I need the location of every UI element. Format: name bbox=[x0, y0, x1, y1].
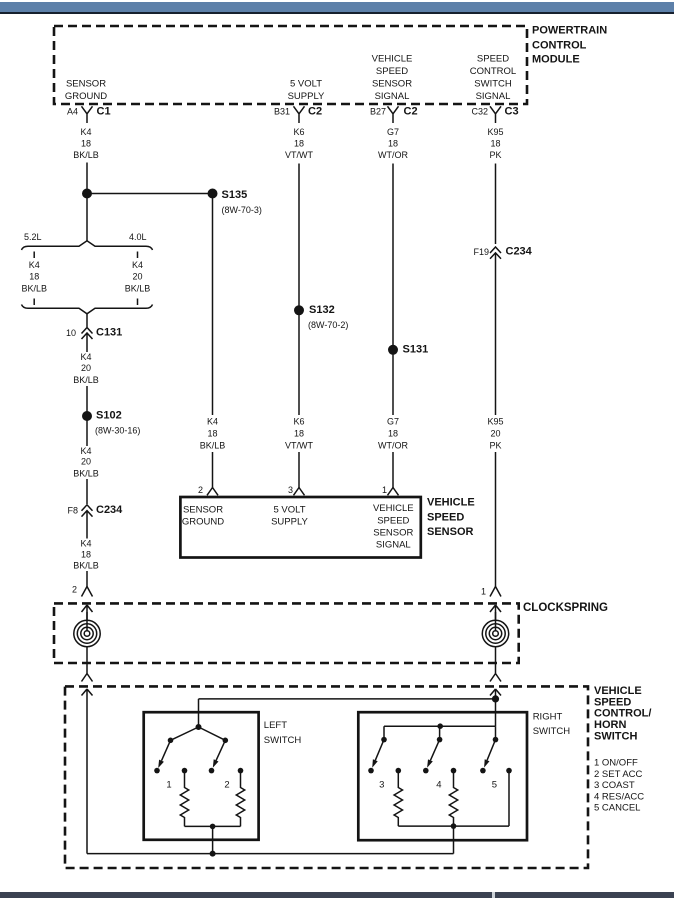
wire col3 C2 down bbox=[392, 164, 394, 351]
bottom return bus bbox=[87, 853, 454, 855]
svg-text:4: 4 bbox=[436, 780, 441, 791]
svg-text:2: 2 bbox=[198, 485, 203, 495]
right switch feed bus bbox=[384, 726, 496, 739]
right switch box bbox=[358, 712, 527, 840]
switch arm 4 bbox=[427, 740, 440, 768]
svg-text:PK: PK bbox=[489, 441, 501, 451]
switch 5 contact terminal bbox=[480, 768, 486, 774]
PCM pin label SPEED CONTROL SWITCH SIGNAL bbox=[470, 54, 516, 102]
svg-text:BK/LB: BK/LB bbox=[73, 150, 99, 160]
PCM pin label VEHICLE SPEED SENSOR SIGNAL bbox=[372, 54, 413, 102]
svg-text:SENSOR: SENSOR bbox=[373, 528, 413, 539]
sensor pin 2 fork bbox=[198, 485, 218, 495]
switch legend list bbox=[594, 758, 644, 814]
svg-text:VT/WT: VT/WT bbox=[285, 441, 313, 451]
wire label K95 18 PK col4 bbox=[487, 127, 503, 160]
svg-text:SUPPLY: SUPPLY bbox=[288, 91, 325, 102]
switch 4 contact terminal bbox=[423, 768, 429, 774]
svg-text:S135: S135 bbox=[222, 189, 248, 201]
svg-text:SIGNAL: SIGNAL bbox=[375, 91, 410, 102]
wire col2 C2 down bbox=[298, 164, 300, 311]
svg-text:20: 20 bbox=[490, 429, 500, 439]
svg-text:CONTROL: CONTROL bbox=[532, 39, 587, 51]
junction bottom bus bbox=[210, 851, 216, 857]
resistor R3 terminal bbox=[396, 768, 402, 774]
svg-text:SENSOR: SENSOR bbox=[427, 526, 474, 538]
svg-text:SIGNAL: SIGNAL bbox=[376, 540, 411, 551]
svg-text:18: 18 bbox=[490, 139, 500, 149]
left switch box bbox=[144, 712, 259, 840]
resistor R2 bbox=[236, 771, 244, 827]
wire col4 to clockspring pin1 bbox=[495, 452, 497, 587]
wire stub left bottom bbox=[33, 299, 35, 306]
junction top bus bbox=[492, 695, 499, 702]
switch 1 contact terminal bbox=[154, 768, 160, 774]
wire left clockspring to switch fork bbox=[82, 663, 93, 682]
sensor box label 5 VOLT SUPPLY bbox=[271, 504, 308, 527]
wire C131 to S102 bbox=[86, 386, 88, 421]
svg-text:18: 18 bbox=[81, 549, 91, 559]
left box bus junction bbox=[210, 824, 216, 830]
svg-text:K4: K4 bbox=[80, 446, 91, 456]
svg-text:VT/WT: VT/WT bbox=[285, 150, 313, 160]
brace bottom bbox=[22, 305, 153, 314]
wire label K4 18 BK/LB above sensor bbox=[200, 417, 226, 451]
wire stub right top bbox=[137, 252, 139, 259]
svg-text:K4: K4 bbox=[29, 260, 40, 270]
sensor pin 1 fork bbox=[382, 485, 399, 495]
svg-text:GROUND: GROUND bbox=[182, 516, 224, 527]
svg-text:G7: G7 bbox=[387, 417, 399, 427]
svg-text:BK/LB: BK/LB bbox=[73, 375, 99, 385]
svg-text:K4: K4 bbox=[80, 352, 91, 362]
wire stub right bottom bbox=[137, 299, 139, 306]
svg-text:B27: B27 bbox=[370, 106, 386, 116]
resistor R2 terminal bbox=[238, 768, 244, 774]
right feed bus junction bbox=[437, 723, 443, 729]
wire label K95 20 PK above clockspring bbox=[487, 417, 503, 451]
wire col2 to sensor pin3 bbox=[298, 452, 300, 488]
svg-text:SENSOR: SENSOR bbox=[372, 79, 412, 90]
svg-text:2: 2 bbox=[72, 585, 77, 595]
clockspring dashed box bbox=[54, 603, 519, 663]
svg-text:WT/OR: WT/OR bbox=[378, 150, 408, 160]
svg-text:B31: B31 bbox=[274, 106, 290, 116]
svg-text:G7: G7 bbox=[387, 127, 399, 137]
PCM label bbox=[532, 25, 607, 66]
svg-text:1: 1 bbox=[481, 587, 486, 597]
svg-text:K4: K4 bbox=[80, 538, 91, 548]
wire to C234 bbox=[86, 479, 88, 504]
wire col3 S131 to sensor bbox=[392, 354, 394, 415]
svg-text:S131: S131 bbox=[403, 344, 429, 356]
svg-text:LEFT: LEFT bbox=[264, 720, 287, 731]
bottom banner bar bbox=[0, 892, 674, 898]
svg-text:C2: C2 bbox=[404, 105, 418, 117]
wire brace to C131 bbox=[86, 314, 88, 327]
switch 2 pivot junction bbox=[223, 738, 229, 744]
right box bus junction bbox=[451, 823, 457, 829]
connector C1 pin A4 bbox=[67, 105, 111, 123]
wire label K4 18 BK/LB below C234 bbox=[73, 538, 99, 570]
switch 1 pivot junction bbox=[168, 738, 174, 744]
svg-text:GROUND: GROUND bbox=[65, 91, 107, 102]
connector C2 pin B27 bbox=[370, 105, 418, 123]
svg-text:18: 18 bbox=[388, 429, 398, 439]
svg-text:BK/LB: BK/LB bbox=[73, 468, 99, 478]
resistor R3 bbox=[394, 771, 402, 827]
svg-text:CLOCKSPRING: CLOCKSPRING bbox=[523, 602, 608, 614]
svg-text:1 ON/OFF: 1 ON/OFF bbox=[594, 758, 638, 769]
PCM pin label 5 VOLT SUPPLY bbox=[288, 79, 325, 102]
svg-text:18: 18 bbox=[29, 272, 39, 282]
wire label K4 20 BK/LB below S102 bbox=[73, 446, 99, 479]
PCM pin label SENSOR GROUND bbox=[65, 79, 107, 102]
svg-text:18: 18 bbox=[294, 429, 304, 439]
connector C3 pin C32 bbox=[471, 105, 518, 123]
right feed arrow into switch box bbox=[490, 689, 501, 726]
svg-text:HORN: HORN bbox=[594, 719, 626, 731]
svg-text:1: 1 bbox=[166, 780, 171, 791]
svg-text:18: 18 bbox=[81, 139, 91, 149]
svg-text:SPEED: SPEED bbox=[477, 54, 509, 65]
svg-text:18: 18 bbox=[388, 139, 398, 149]
switch arm 5 bbox=[484, 740, 495, 768]
wire label K4 20 BK/LB below C131 bbox=[73, 352, 99, 385]
svg-text:(8W-30-16): (8W-30-16) bbox=[95, 426, 140, 436]
svg-text:2: 2 bbox=[224, 780, 229, 791]
svg-text:SWITCH: SWITCH bbox=[474, 79, 512, 90]
switch arm 3 bbox=[372, 740, 384, 768]
svg-text:(8W-70-3): (8W-70-3) bbox=[222, 205, 262, 215]
wire label K4 18 BK/LB col1 bbox=[73, 127, 99, 160]
left riser arrow into switch box bbox=[82, 689, 93, 854]
svg-text:4 RES/ACC: 4 RES/ACC bbox=[594, 791, 644, 802]
svg-text:CONTROL/: CONTROL/ bbox=[594, 708, 651, 720]
resistor R4 bbox=[449, 771, 457, 827]
svg-text:20: 20 bbox=[81, 456, 91, 466]
left switch title bbox=[264, 720, 302, 746]
right box resistor bus bbox=[398, 826, 509, 854]
svg-text:SPEED: SPEED bbox=[594, 696, 631, 708]
vehicle speed sensor title bbox=[427, 497, 475, 539]
svg-text:18: 18 bbox=[207, 429, 217, 439]
switch arm 1 bbox=[158, 740, 170, 768]
svg-text:20: 20 bbox=[81, 363, 91, 373]
svg-text:K95: K95 bbox=[487, 127, 503, 137]
left switch feed wires bbox=[171, 727, 226, 740]
resistor R1 terminal bbox=[182, 768, 188, 774]
wire col1 S135 to brace bbox=[86, 198, 88, 241]
svg-text:F8: F8 bbox=[67, 506, 78, 516]
svg-text:5.2L: 5.2L bbox=[24, 232, 42, 242]
svg-text:2 SET ACC: 2 SET ACC bbox=[594, 769, 643, 780]
svg-text:C131: C131 bbox=[96, 327, 122, 339]
svg-text:5 VOLT: 5 VOLT bbox=[290, 79, 322, 90]
wire col2 S132 to sensor bbox=[298, 315, 300, 415]
splice S132 dot bbox=[294, 305, 304, 315]
svg-text:K95: K95 bbox=[487, 417, 503, 427]
svg-text:VEHICLE: VEHICLE bbox=[373, 503, 414, 514]
wire label K4 18 BK/LB (5.2L) bbox=[21, 260, 47, 294]
switch 2 contact terminal bbox=[209, 768, 215, 774]
splice S102 label bbox=[95, 410, 140, 436]
wire col4 C3 down bbox=[495, 164, 497, 245]
switch module title bbox=[594, 685, 651, 742]
svg-text:BK/LB: BK/LB bbox=[200, 441, 226, 451]
wire label K6 18 VT/WT col2 bbox=[285, 127, 313, 160]
right switch title bbox=[533, 712, 571, 738]
sensor box label VEHICLE SPEED SENSOR SIGNAL bbox=[373, 503, 414, 551]
top banner dark line bbox=[0, 12, 674, 14]
svg-text:WT/OR: WT/OR bbox=[378, 441, 408, 451]
svg-text:SWITCH: SWITCH bbox=[264, 735, 302, 746]
pin5 wire bbox=[508, 771, 510, 827]
clockspring right coil bbox=[482, 612, 508, 663]
svg-text:5 VOLT: 5 VOLT bbox=[273, 504, 305, 515]
svg-text:SENSOR: SENSOR bbox=[66, 79, 106, 90]
clockspring pin 2 fork bbox=[72, 585, 93, 597]
svg-text:PK: PK bbox=[489, 150, 501, 160]
svg-text:SPEED: SPEED bbox=[377, 516, 409, 527]
vehicle speed control horn switch dashed box bbox=[65, 686, 588, 868]
switch 4 pivot junction bbox=[437, 737, 443, 743]
svg-text:S102: S102 bbox=[96, 410, 122, 422]
wire label K6 18 VT/WT above sensor bbox=[285, 417, 313, 451]
svg-text:C234: C234 bbox=[506, 246, 533, 258]
splice S132 label bbox=[308, 304, 348, 330]
splice S135 horizontal wire bbox=[87, 193, 213, 195]
svg-text:3 COAST: 3 COAST bbox=[594, 780, 635, 791]
svg-text:3: 3 bbox=[288, 485, 293, 495]
svg-text:BK/LB: BK/LB bbox=[125, 284, 151, 294]
svg-text:SIGNAL: SIGNAL bbox=[476, 91, 511, 102]
node junction col1 bbox=[82, 189, 92, 199]
splice S131 dot bbox=[388, 345, 398, 355]
wire col1 to S135 bbox=[86, 163, 88, 190]
switch arm 2 bbox=[213, 740, 226, 767]
left switch common node bbox=[196, 724, 202, 730]
wire label G7 18 WT/OR col3 bbox=[378, 127, 408, 160]
svg-text:F19: F19 bbox=[473, 247, 489, 257]
switch 3 contact terminal bbox=[368, 768, 374, 774]
clockspring left arrow into box bbox=[82, 605, 93, 621]
svg-text:C1: C1 bbox=[97, 105, 111, 117]
clockspring right arrow into box bbox=[490, 605, 501, 621]
sensor box label SENSOR GROUND bbox=[182, 504, 224, 527]
left box resistor bus bbox=[185, 826, 241, 853]
svg-text:18: 18 bbox=[294, 139, 304, 149]
sensor pin 3 fork bbox=[288, 485, 305, 495]
switch 5 pivot junction bbox=[493, 737, 499, 743]
svg-text:BK/LB: BK/LB bbox=[73, 560, 99, 570]
svg-text:VEHICLE: VEHICLE bbox=[372, 54, 413, 65]
clockspring left coil bbox=[74, 612, 100, 663]
svg-text:S132: S132 bbox=[309, 304, 335, 316]
wire label G7 18 WT/OR above sensor bbox=[378, 417, 408, 451]
svg-text:K6: K6 bbox=[293, 417, 304, 427]
bottom banner separator bbox=[492, 892, 495, 898]
svg-text:K4: K4 bbox=[207, 417, 218, 427]
svg-text:C2: C2 bbox=[308, 105, 322, 117]
powertrain control module dashed box bbox=[54, 26, 527, 104]
resistor R1 bbox=[180, 771, 188, 827]
vehicle speed sensor box bbox=[180, 497, 420, 558]
pin 5 wire terminal bbox=[506, 768, 512, 774]
svg-text:VEHICLE: VEHICLE bbox=[427, 497, 475, 509]
wire right clockspring to switch fork bbox=[490, 663, 501, 682]
svg-text:SWITCH: SWITCH bbox=[594, 730, 637, 742]
connector C234 pin F8 bbox=[67, 504, 123, 539]
wire stub left top bbox=[33, 252, 35, 259]
svg-text:SUPPLY: SUPPLY bbox=[271, 516, 308, 527]
svg-text:VEHICLE: VEHICLE bbox=[594, 685, 642, 697]
svg-text:CONTROL: CONTROL bbox=[470, 66, 516, 77]
svg-text:BK/LB: BK/LB bbox=[21, 284, 47, 294]
splice S135 dot bbox=[208, 189, 218, 199]
svg-text:SPEED: SPEED bbox=[376, 66, 408, 77]
svg-text:1: 1 bbox=[382, 485, 387, 495]
clockspring right pin 1 fork bbox=[481, 587, 501, 597]
connector C2 pin B31 bbox=[274, 105, 322, 123]
svg-text:SWITCH: SWITCH bbox=[533, 726, 571, 737]
connector C234 pin F19 bbox=[473, 246, 532, 416]
svg-text:C234: C234 bbox=[96, 504, 123, 516]
svg-text:SPEED: SPEED bbox=[427, 511, 464, 523]
svg-text:(8W-70-2): (8W-70-2) bbox=[308, 320, 348, 330]
svg-text:10: 10 bbox=[66, 328, 76, 338]
wire S102 down bbox=[86, 421, 88, 446]
brace top bbox=[22, 241, 153, 250]
svg-text:RIGHT: RIGHT bbox=[533, 712, 563, 723]
wire S135-branch to sensor pin2 bbox=[212, 198, 214, 488]
svg-text:C3: C3 bbox=[505, 105, 519, 117]
switch 3 pivot junction bbox=[381, 737, 387, 743]
svg-text:K6: K6 bbox=[293, 127, 304, 137]
svg-text:K4: K4 bbox=[80, 127, 91, 137]
svg-text:4.0L: 4.0L bbox=[129, 232, 147, 242]
svg-text:MODULE: MODULE bbox=[532, 54, 580, 66]
svg-text:3: 3 bbox=[379, 780, 384, 791]
resistor R4 terminal bbox=[451, 768, 457, 774]
splice S102 dot bbox=[82, 411, 92, 421]
svg-text:SENSOR: SENSOR bbox=[183, 504, 223, 515]
top bus wire bbox=[199, 699, 496, 727]
svg-text:5: 5 bbox=[492, 780, 497, 791]
splice S135 label bbox=[222, 189, 262, 215]
connector C131 pin 10 bbox=[66, 327, 122, 353]
wire col3 to sensor pin1 bbox=[392, 452, 394, 488]
wire label K4 20 BK/LB (4.0L) bbox=[125, 260, 151, 294]
svg-text:C32: C32 bbox=[471, 106, 488, 116]
svg-text:POWERTRAIN: POWERTRAIN bbox=[532, 25, 607, 37]
svg-text:K4: K4 bbox=[132, 260, 143, 270]
svg-text:A4: A4 bbox=[67, 106, 78, 116]
svg-text:20: 20 bbox=[132, 272, 142, 282]
top banner blue bar bbox=[0, 2, 674, 12]
wire to clockspring pin 2 bbox=[86, 571, 88, 587]
svg-text:5 CANCEL: 5 CANCEL bbox=[594, 803, 640, 814]
